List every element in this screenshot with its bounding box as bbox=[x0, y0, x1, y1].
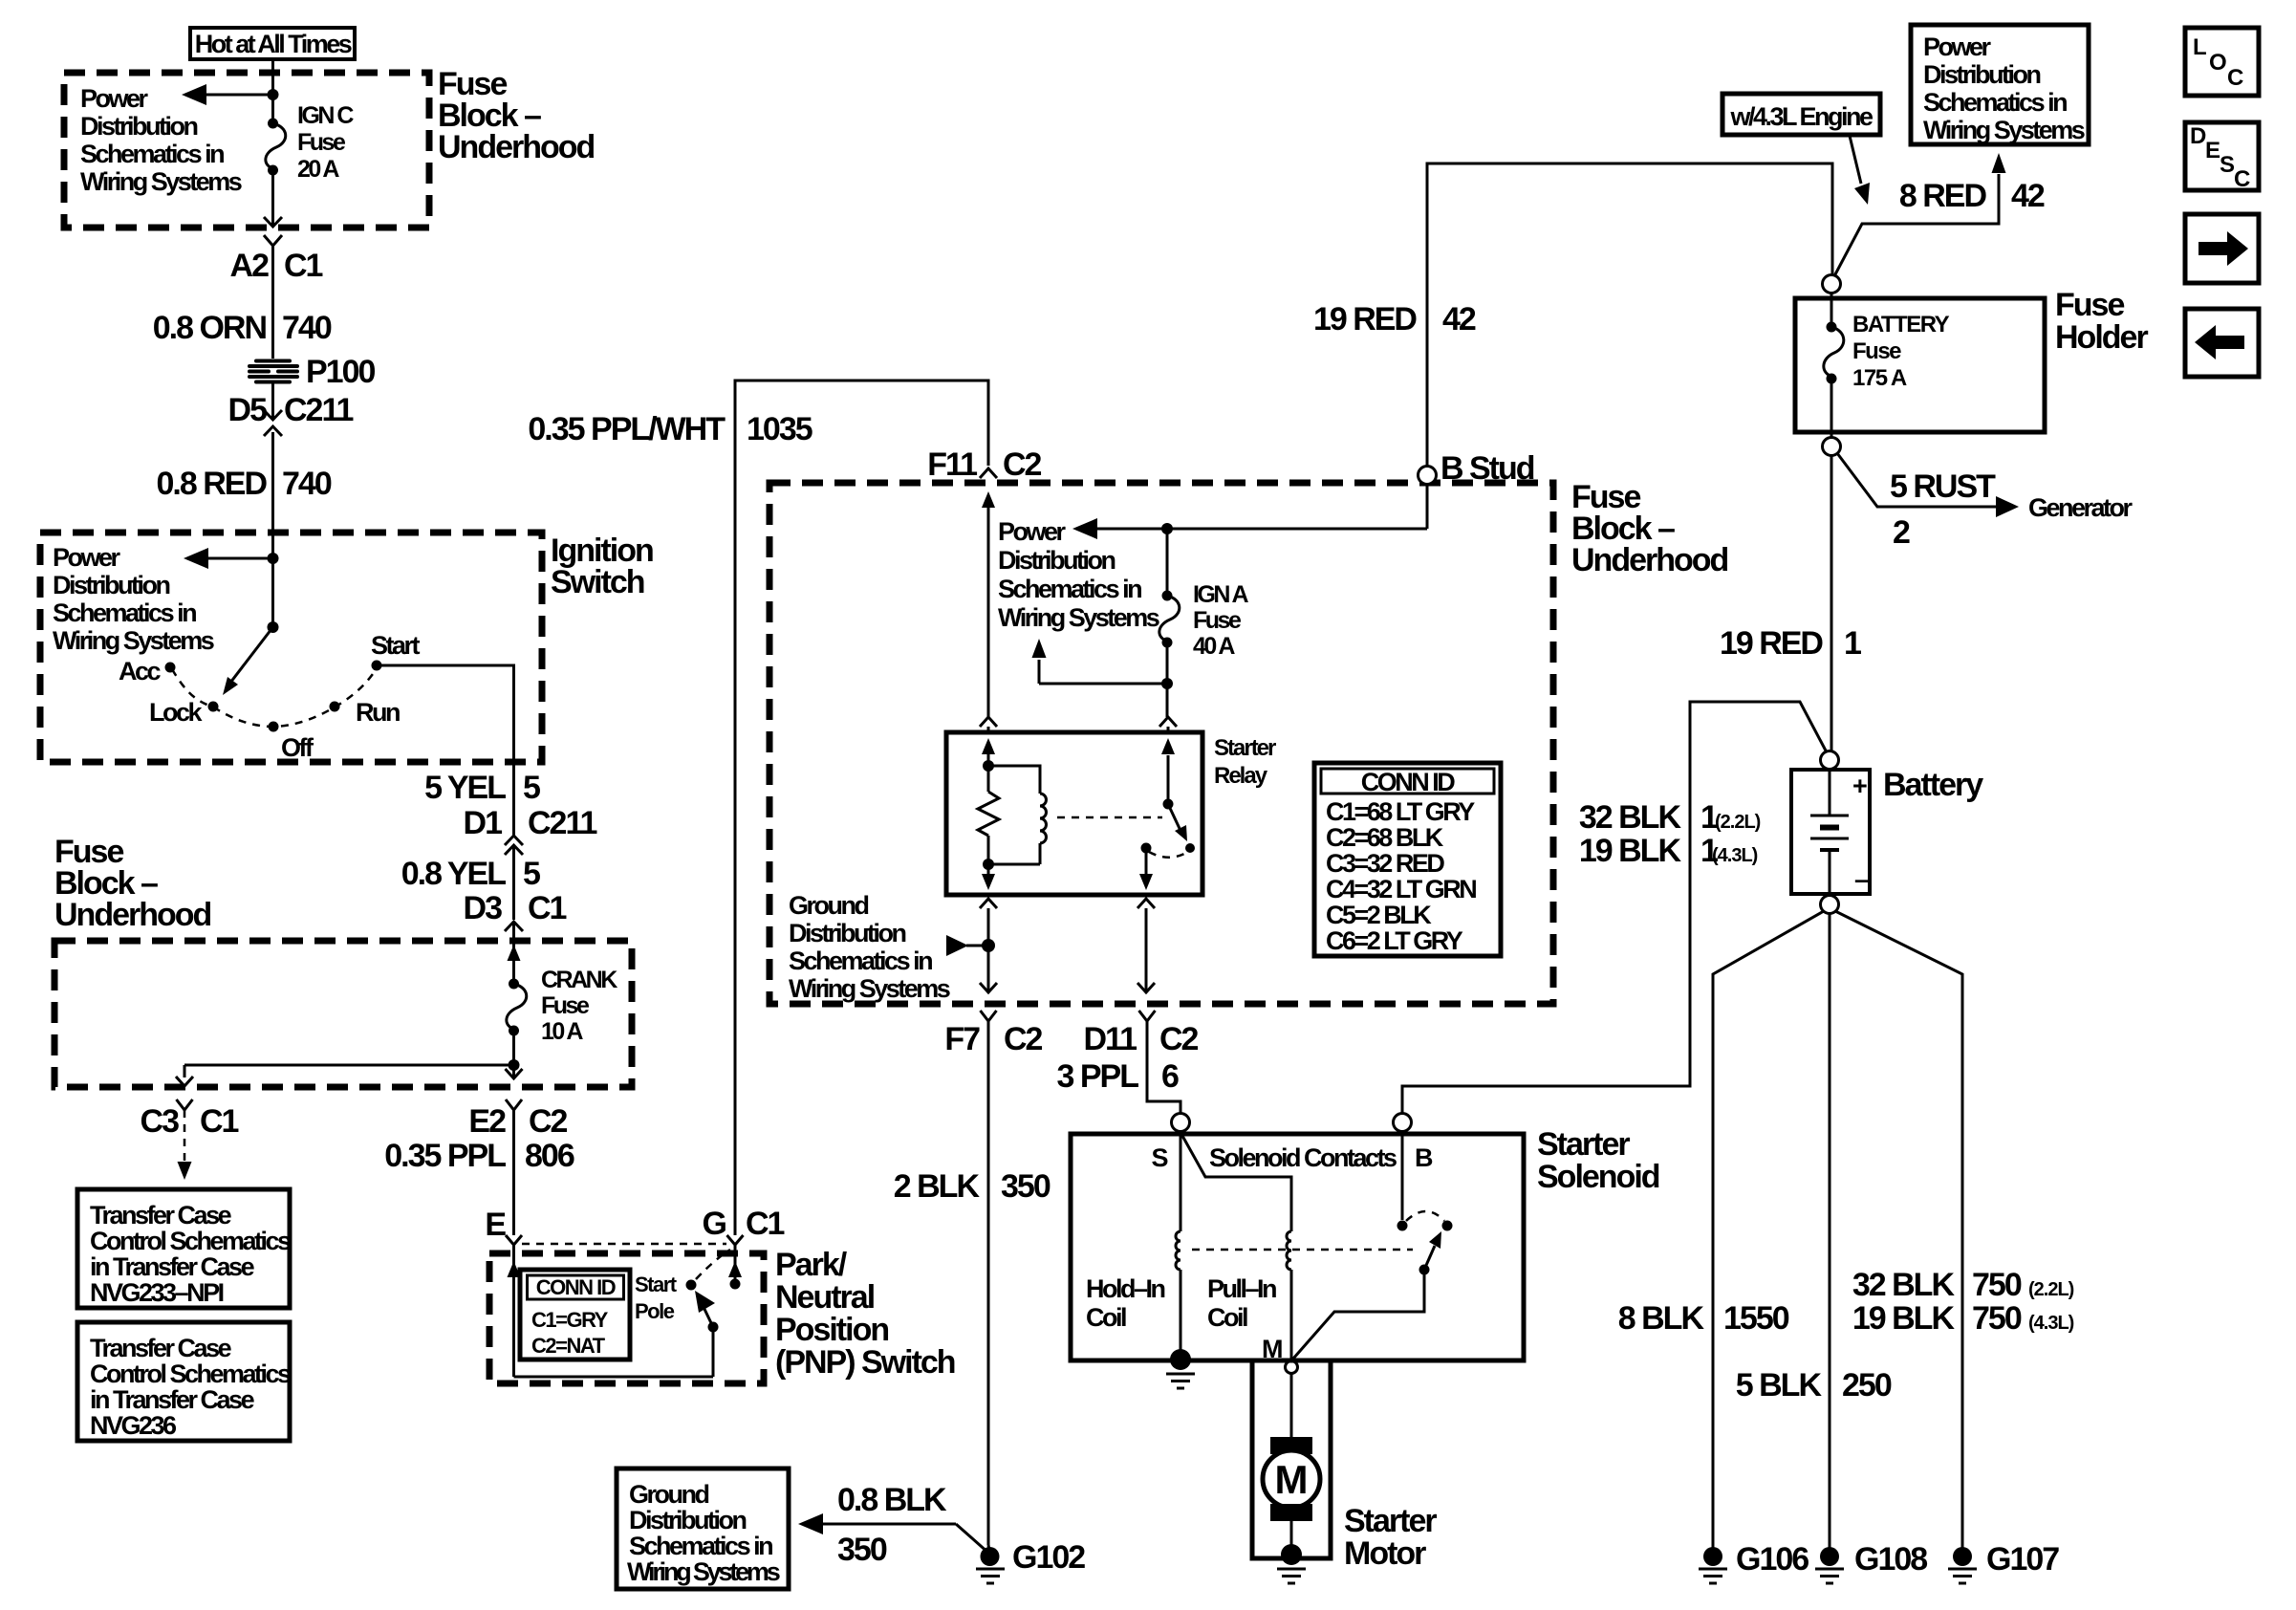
wire: branch with up arrow to power distribution bbox=[1032, 639, 1168, 684]
svg-text:32 BLK: 32 BLK bbox=[1852, 1267, 1956, 1303]
wire: S terminal to hold-in coil bbox=[1180, 1132, 1182, 1231]
svg-text:C1=GRY: C1=GRY bbox=[531, 1308, 609, 1332]
wire 0.35 PPL 806 bbox=[384, 1110, 574, 1235]
arrow to ground distribution tap bbox=[946, 935, 988, 956]
wire 32 BLK / 19 BLK 750 to G107 bbox=[1835, 911, 2074, 1549]
starter motor ground bbox=[1277, 1544, 1306, 1583]
svg-text:C1=68 LT GRY: C1=68 LT GRY bbox=[1326, 797, 1475, 826]
relay moving contact arm bbox=[1168, 804, 1195, 853]
label Starter Solenoid bbox=[1537, 1126, 1659, 1195]
svg-text:+: + bbox=[1852, 772, 1867, 800]
svg-text:350: 350 bbox=[837, 1532, 887, 1568]
connector C2 terminal F11 (chevron) bbox=[927, 446, 1041, 483]
svg-text:5 BLK: 5 BLK bbox=[1736, 1367, 1823, 1403]
svg-text:Relay: Relay bbox=[1214, 763, 1268, 789]
solenoid contact second point bbox=[1442, 1221, 1453, 1231]
svg-text:3 PPL: 3 PPL bbox=[1057, 1058, 1139, 1095]
dashed reference wire to transfer case schematics bbox=[178, 1110, 192, 1180]
svg-text:250: 250 bbox=[1842, 1367, 1892, 1403]
label Start Pole bbox=[635, 1273, 678, 1323]
entry arrow into crank fuse block bbox=[508, 945, 521, 961]
svg-text:B Stud: B Stud bbox=[1440, 450, 1534, 487]
wire 0.8 RED 740 bbox=[157, 432, 332, 558]
wire: P100 to connector C211 bbox=[228, 383, 354, 436]
svg-text:Distribution: Distribution bbox=[998, 546, 1115, 575]
svg-text:2: 2 bbox=[1893, 514, 1910, 551]
svg-text:5: 5 bbox=[523, 856, 540, 892]
connector C1 terminal A2 (fork) bbox=[230, 235, 323, 284]
wire 2 BLK 350 down to G102 bbox=[894, 1021, 1051, 1553]
svg-text:5 RUST: 5 RUST bbox=[1890, 468, 1996, 505]
svg-text:Power: Power bbox=[1923, 33, 1992, 61]
wire 3 PPL 6 to solenoid S terminal bbox=[1057, 1021, 1180, 1113]
battery cell symbol bbox=[1810, 770, 1869, 894]
CONN ID table (fuse block) bbox=[1314, 763, 1501, 956]
wire: M terminal to motor bbox=[1290, 1374, 1293, 1438]
PNP CONN ID table bbox=[520, 1270, 630, 1360]
fuse IGN A 40 A bbox=[1159, 581, 1249, 660]
svg-text:Position: Position bbox=[775, 1312, 888, 1348]
svg-text:Underhood: Underhood bbox=[1571, 542, 1728, 578]
relay fixed contact bbox=[1141, 843, 1152, 854]
svg-text:C6=2 LT GRY: C6=2 LT GRY bbox=[1326, 926, 1463, 955]
junction at IGN A feed bbox=[1161, 523, 1173, 534]
svg-text:0.35 PPL: 0.35 PPL bbox=[384, 1138, 506, 1174]
svg-text:C1: C1 bbox=[746, 1206, 785, 1242]
svg-text:Wiring Systems: Wiring Systems bbox=[53, 626, 214, 655]
svg-text:Power: Power bbox=[80, 84, 149, 113]
wire: S terminal to pull-in coil bbox=[1182, 1136, 1291, 1231]
svg-text:(2.2L): (2.2L) bbox=[2028, 1279, 2074, 1300]
ignition position contact Off bbox=[269, 722, 314, 763]
svg-text:2 BLK: 2 BLK bbox=[894, 1168, 981, 1205]
svg-text:Schematics in: Schematics in bbox=[998, 575, 1141, 603]
svg-text:S: S bbox=[1151, 1143, 1167, 1172]
connector C2 terminal D11 (fork) bbox=[1084, 1011, 1199, 1057]
svg-text:G108: G108 bbox=[1854, 1541, 1927, 1577]
svg-text:Solenoid Contacts: Solenoid Contacts bbox=[1209, 1143, 1397, 1172]
power distribution reference box (top right) bbox=[1911, 25, 2089, 144]
connector C2 terminal F7 (fork) bbox=[944, 1011, 1042, 1057]
ground G107 bbox=[1948, 1541, 2059, 1583]
wire 8 RED 42 with arrow to power distribution bbox=[1835, 153, 2045, 274]
svg-text:in Transfer Case: in Transfer Case bbox=[90, 1385, 255, 1414]
wire: fuse output to connector C1 bbox=[264, 170, 282, 227]
wire: coil bottom branch bbox=[988, 863, 1040, 866]
svg-text:740: 740 bbox=[282, 310, 332, 346]
wire: power distribution tap in ignition switch bbox=[184, 548, 273, 569]
junction at relay coil bottom bbox=[983, 859, 994, 870]
svg-text:Fuse: Fuse bbox=[1193, 607, 1242, 634]
svg-text:C2=68 BLK: C2=68 BLK bbox=[1326, 823, 1444, 852]
svg-text:E: E bbox=[485, 1207, 506, 1243]
svg-text:Distribution: Distribution bbox=[1923, 60, 2040, 89]
wire 5 RUST 2 to generator bbox=[1837, 453, 2019, 551]
svg-text:1035: 1035 bbox=[747, 411, 812, 447]
svg-text:Ground: Ground bbox=[789, 891, 868, 920]
svg-text:C1: C1 bbox=[200, 1103, 239, 1140]
svg-text:19 BLK: 19 BLK bbox=[1852, 1300, 1956, 1337]
relay coil bbox=[1040, 794, 1047, 864]
svg-text:S: S bbox=[2220, 152, 2235, 178]
relay coil feed entry arrow bbox=[982, 738, 995, 767]
label Fuse Block - Underhood (top left) bbox=[438, 66, 595, 165]
svg-text:350: 350 bbox=[1001, 1168, 1051, 1205]
svg-text:IGN C: IGN C bbox=[297, 102, 354, 129]
leader arrow from w/4.3L Engine tag bbox=[1850, 136, 1870, 205]
B Stud terminal bbox=[1419, 450, 1534, 487]
battery box bbox=[1791, 770, 1870, 894]
fuse holder input terminal bbox=[1823, 275, 1841, 294]
svg-text:Control Schematics: Control Schematics bbox=[90, 1360, 291, 1388]
svg-text:Park/: Park/ bbox=[775, 1247, 848, 1283]
svg-text:D: D bbox=[2190, 123, 2206, 149]
svg-text:C1: C1 bbox=[528, 890, 567, 926]
wire: ignition feed to rotor bbox=[271, 558, 274, 627]
svg-text:(2.2L): (2.2L) bbox=[1715, 812, 1761, 833]
dashed travel arc of PNP switch bbox=[696, 1250, 730, 1279]
start pole contact bbox=[686, 1280, 697, 1291]
entry arrow for F11 wire inside fuse block bbox=[982, 491, 995, 717]
svg-text:C: C bbox=[2227, 65, 2243, 91]
wire: Start contact to ignition output bbox=[377, 665, 514, 837]
solenoid S terminal bbox=[1172, 1114, 1190, 1132]
wire: hot feed from tag into fuse block bbox=[271, 57, 274, 120]
chevron above starter relay (left) bbox=[980, 717, 997, 727]
svg-text:IGN A: IGN A bbox=[1193, 581, 1248, 608]
relay output exit arrow bbox=[1139, 848, 1153, 890]
svg-text:L: L bbox=[2193, 34, 2206, 60]
svg-text:Schematics in: Schematics in bbox=[80, 140, 224, 168]
svg-text:6: 6 bbox=[1161, 1058, 1179, 1095]
label Fuse Holder bbox=[2055, 287, 2148, 356]
pull-in coil bbox=[1207, 1231, 1291, 1332]
connector C211 terminal D1 (double chevron) bbox=[464, 805, 597, 855]
svg-text:C2: C2 bbox=[529, 1103, 568, 1140]
svg-text:C2: C2 bbox=[1159, 1021, 1199, 1057]
previous-page arrow box bbox=[2185, 309, 2259, 377]
ignition position contact Lock bbox=[149, 698, 219, 727]
Hot at All Times tag bbox=[190, 28, 355, 59]
wire: pull-in coil to M terminal bbox=[1290, 1270, 1293, 1362]
svg-text:Power: Power bbox=[998, 517, 1067, 546]
svg-text:Pull–In: Pull–In bbox=[1207, 1274, 1276, 1303]
svg-text:750: 750 bbox=[1972, 1267, 2022, 1303]
wire: IGN A fuse output bbox=[1166, 642, 1169, 717]
svg-text:P100: P100 bbox=[306, 354, 375, 390]
svg-text:Ground: Ground bbox=[629, 1480, 708, 1509]
svg-text:Wiring Systems: Wiring Systems bbox=[80, 167, 242, 196]
svg-text:Motor: Motor bbox=[1344, 1535, 1426, 1572]
wire 19 RED 1 to battery bbox=[1720, 456, 1861, 751]
dashed travel arc of ignition switch bbox=[172, 668, 377, 727]
LOC legend box bbox=[2185, 28, 2259, 96]
ground distribution reference note (center) bbox=[789, 891, 950, 1003]
ignition position contact Acc bbox=[119, 657, 176, 685]
starter motor M symbol bbox=[1263, 1437, 1320, 1521]
junction at ignition feed bbox=[268, 553, 279, 564]
svg-text:G: G bbox=[703, 1206, 726, 1242]
wire: B terminal to fixed contact bbox=[1401, 1132, 1404, 1220]
label Battery bbox=[1883, 767, 1983, 803]
fuse holder output terminal bbox=[1823, 438, 1841, 456]
fuse holder box bbox=[1795, 298, 2045, 432]
svg-text:Schematics in: Schematics in bbox=[789, 946, 932, 975]
svg-text:Starter: Starter bbox=[1537, 1126, 1630, 1163]
wire: E terminal into PNP switch bbox=[508, 1245, 714, 1377]
wire 32 BLK / 19 BLK 1 from solenoid B to battery bbox=[1402, 702, 1827, 1114]
svg-text:M: M bbox=[1275, 1457, 1309, 1502]
wire 5 BLK 250 battery negative to G108 bbox=[1736, 913, 1892, 1549]
fuse block underhood dashed box (left middle) bbox=[54, 941, 632, 1087]
fuse BATTERY 175 A bbox=[1824, 293, 1950, 438]
svg-text:C5=2 BLK: C5=2 BLK bbox=[1326, 901, 1432, 929]
svg-text:Wiring Systems: Wiring Systems bbox=[1923, 116, 2085, 144]
power distribution reference note (top left) bbox=[80, 84, 242, 196]
svg-text:C2: C2 bbox=[1004, 1021, 1043, 1057]
fuse block underhood dashed box (center) bbox=[769, 483, 1553, 1004]
svg-text:19 BLK: 19 BLK bbox=[1579, 833, 1682, 869]
ignition rotor arm arrow to Lock bbox=[223, 627, 273, 695]
svg-text:Wiring Systems: Wiring Systems bbox=[627, 1557, 780, 1586]
svg-text:F7: F7 bbox=[944, 1021, 980, 1057]
wire 0.8 ORN 740 bbox=[153, 246, 332, 359]
svg-text:750: 750 bbox=[1972, 1300, 2022, 1337]
wire 0.8 YEL 5 bbox=[401, 845, 540, 920]
wire: branch to transfer case connector bbox=[176, 1065, 514, 1086]
svg-text:Fuse: Fuse bbox=[297, 129, 346, 156]
svg-text:40 A: 40 A bbox=[1193, 633, 1235, 660]
svg-text:NVG236: NVG236 bbox=[90, 1411, 177, 1440]
svg-text:Underhood: Underhood bbox=[438, 129, 595, 165]
wire to IGN A fuse bbox=[1166, 529, 1169, 593]
M terminal bbox=[1262, 1335, 1298, 1374]
wire: relay right output to fuse block edge bbox=[1137, 899, 1155, 992]
dashed contact throw arc in relay bbox=[1149, 852, 1186, 858]
svg-text:1550: 1550 bbox=[1723, 1300, 1789, 1337]
svg-text:740: 740 bbox=[282, 466, 332, 502]
ground G106 bbox=[1699, 1541, 1809, 1583]
svg-text:Distribution: Distribution bbox=[789, 919, 905, 947]
svg-text:Start: Start bbox=[371, 631, 421, 660]
chevron above starter relay (right) bbox=[1159, 717, 1177, 727]
solenoid moving contact arm bbox=[1419, 1231, 1442, 1275]
svg-text:Off: Off bbox=[281, 733, 314, 762]
svg-text:Start: Start bbox=[635, 1273, 678, 1296]
svg-text:Schematics in: Schematics in bbox=[53, 598, 196, 627]
fuse block underhood dashed box (top left) bbox=[64, 73, 429, 228]
svg-text:20 A: 20 A bbox=[297, 156, 339, 183]
svg-text:Starter: Starter bbox=[1344, 1503, 1437, 1539]
wire 0.35 PPL/WHT 1035 from G terminal up to F11 bbox=[528, 381, 988, 1235]
dashed actuation link in solenoid bbox=[1192, 1249, 1413, 1251]
wire: power distribution tap with left arrow bbox=[182, 84, 273, 105]
svg-text:Coil: Coil bbox=[1086, 1303, 1126, 1332]
starter motor case bbox=[1252, 1360, 1331, 1558]
svg-text:Pole: Pole bbox=[635, 1299, 675, 1323]
svg-text:D3: D3 bbox=[464, 890, 503, 926]
junction below IGN A fuse bbox=[1161, 678, 1173, 689]
power distribution reference note (center) bbox=[998, 517, 1159, 632]
starter solenoid box bbox=[1071, 1134, 1524, 1360]
connector C1 terminal D3 (chevron) bbox=[464, 890, 567, 931]
svg-text:w/4.3L Engine: w/4.3L Engine bbox=[1729, 102, 1874, 131]
w/4.3L Engine tag bbox=[1722, 94, 1880, 135]
ground distribution reference box (bottom) bbox=[617, 1469, 789, 1589]
svg-text:A2: A2 bbox=[230, 248, 270, 284]
wire end arrow at fuse block edge bbox=[506, 1069, 523, 1078]
svg-text:C211: C211 bbox=[528, 805, 596, 841]
dashed contact throw arc in solenoid bbox=[1406, 1211, 1444, 1221]
svg-text:CRANK: CRANK bbox=[541, 967, 617, 993]
svg-text:Fuse: Fuse bbox=[1852, 338, 1901, 364]
connector C1 terminal C3 (fork) bbox=[141, 1099, 239, 1140]
connector C1 terminal G (fork) bbox=[703, 1206, 785, 1245]
svg-text:Transfer Case: Transfer Case bbox=[90, 1334, 232, 1362]
label Generator bbox=[2028, 493, 2134, 522]
wire: B stud feed inside fuse block with left arrow bbox=[1072, 484, 1427, 539]
svg-text:CONN ID: CONN ID bbox=[1361, 768, 1456, 796]
solenoid case ground bbox=[1166, 1349, 1195, 1388]
battery positive terminal bbox=[1821, 751, 1839, 770]
svg-text:G107: G107 bbox=[1986, 1541, 2059, 1577]
wire: hold-in coil to case ground bbox=[1180, 1270, 1182, 1354]
wire stubs into relay bbox=[988, 727, 1168, 734]
svg-text:1: 1 bbox=[1844, 625, 1861, 662]
ground G102 bbox=[976, 1539, 1085, 1583]
svg-text:5: 5 bbox=[523, 770, 540, 806]
svg-text:Underhood: Underhood bbox=[54, 897, 211, 933]
transfer case schematics box NVG233-NPI bbox=[77, 1189, 291, 1308]
svg-text:Starter: Starter bbox=[1214, 735, 1276, 761]
svg-text:BATTERY: BATTERY bbox=[1852, 312, 1950, 337]
svg-text:C211: C211 bbox=[284, 392, 353, 428]
svg-text:(4.3L): (4.3L) bbox=[1712, 845, 1758, 866]
hold-in coil bbox=[1086, 1231, 1180, 1332]
wire: moving contact to M terminal bbox=[1293, 1270, 1424, 1359]
label Fuse Block - Underhood (left middle) bbox=[54, 834, 211, 933]
svg-text:Lock: Lock bbox=[149, 698, 204, 727]
junction at relay coil top bbox=[983, 760, 994, 772]
ignition position contact Start bbox=[371, 631, 421, 671]
svg-text:Hot at All Times: Hot at All Times bbox=[195, 30, 352, 58]
svg-text:0.8 BLK: 0.8 BLK bbox=[837, 1482, 947, 1518]
wire: crank fuse output bbox=[512, 1031, 515, 1078]
svg-text:Wiring Systems: Wiring Systems bbox=[998, 603, 1159, 632]
ignition switch dashed box bbox=[40, 533, 542, 762]
svg-text:Switch: Switch bbox=[551, 564, 644, 600]
relay coil ground exit arrow bbox=[982, 864, 995, 890]
svg-text:Distribution: Distribution bbox=[53, 571, 169, 599]
svg-text:Control Schematics: Control Schematics bbox=[90, 1227, 291, 1255]
svg-text:0.8 ORN: 0.8 ORN bbox=[153, 310, 267, 346]
svg-text:F11: F11 bbox=[927, 446, 977, 483]
solenoid B terminal bbox=[1394, 1114, 1412, 1132]
svg-text:Acc: Acc bbox=[119, 657, 162, 685]
solenoid fixed contact bbox=[1397, 1221, 1408, 1231]
label Fuse Block - Underhood (center) bbox=[1571, 479, 1728, 578]
DESC legend box bbox=[2185, 122, 2259, 192]
svg-text:Power: Power bbox=[53, 543, 121, 572]
svg-text:D1: D1 bbox=[464, 805, 503, 841]
rotor pivot junction bbox=[268, 621, 279, 633]
wire: G terminal contact bbox=[728, 1245, 742, 1290]
svg-text:D11: D11 bbox=[1084, 1021, 1137, 1057]
svg-text:C1: C1 bbox=[284, 248, 323, 284]
svg-text:Coil: Coil bbox=[1207, 1303, 1247, 1332]
label Solenoid Contacts bbox=[1209, 1143, 1397, 1172]
wire 0.8 BLK 350 to ground G102 bbox=[798, 1482, 989, 1568]
svg-text:C: C bbox=[2234, 166, 2250, 192]
power distribution reference note (ignition switch) bbox=[53, 543, 214, 655]
svg-text:Transfer Case: Transfer Case bbox=[90, 1201, 232, 1229]
svg-text:32 BLK: 32 BLK bbox=[1579, 799, 1682, 836]
svg-text:8 BLK: 8 BLK bbox=[1618, 1300, 1705, 1337]
svg-text:in Transfer Case: in Transfer Case bbox=[90, 1252, 255, 1281]
svg-text:Fuse: Fuse bbox=[2055, 287, 2124, 323]
svg-text:O: O bbox=[2209, 50, 2226, 76]
starter relay box bbox=[946, 732, 1202, 895]
svg-text:0.8 RED: 0.8 RED bbox=[157, 466, 268, 502]
svg-text:19 RED: 19 RED bbox=[1720, 625, 1823, 662]
svg-text:(4.3L): (4.3L) bbox=[2028, 1313, 2074, 1334]
wire: relay left output to fuse block edge bbox=[980, 899, 997, 992]
svg-text:Holder: Holder bbox=[2055, 319, 2148, 356]
svg-text:8 RED: 8 RED bbox=[1899, 178, 1987, 214]
svg-text:CONN ID: CONN ID bbox=[536, 1275, 616, 1299]
svg-text:C4=32 LT GRN: C4=32 LT GRN bbox=[1326, 875, 1476, 903]
svg-text:Hold–In: Hold–In bbox=[1086, 1274, 1165, 1303]
svg-text:Neutral: Neutral bbox=[775, 1279, 875, 1316]
thin dashed connector C1 boundary line bbox=[522, 1243, 726, 1246]
svg-text:Wiring Systems: Wiring Systems bbox=[789, 974, 950, 1003]
park neutral position switch dashed box bbox=[489, 1253, 764, 1383]
svg-text:NVG233–NPI: NVG233–NPI bbox=[90, 1278, 224, 1307]
wire 19 RED 42 from B stud up and over bbox=[1313, 163, 1832, 467]
dashed actuation link in relay bbox=[1057, 816, 1162, 819]
svg-text:42: 42 bbox=[2011, 178, 2045, 214]
svg-text:42: 42 bbox=[1442, 301, 1476, 337]
svg-text:5 YEL: 5 YEL bbox=[424, 770, 506, 806]
svg-text:Fuse: Fuse bbox=[541, 992, 590, 1019]
resistor in starter relay bbox=[978, 766, 999, 864]
label Starter Motor bbox=[1344, 1503, 1437, 1572]
svg-text:Distribution: Distribution bbox=[629, 1506, 746, 1534]
junction at IGN C feed bbox=[268, 89, 279, 100]
svg-text:Solenoid: Solenoid bbox=[1537, 1159, 1659, 1195]
label Park/Neutral Position (PNP) Switch bbox=[775, 1247, 955, 1381]
label Ignition Switch bbox=[551, 533, 653, 600]
junction on F7 wire at ground tap bbox=[982, 939, 995, 952]
svg-text:Distribution: Distribution bbox=[80, 112, 197, 141]
junction below crank fuse bbox=[509, 1059, 520, 1071]
connector C1 terminal E (fork) bbox=[485, 1207, 522, 1245]
terminal labels S and B bbox=[1151, 1143, 1433, 1172]
svg-text:Schematics in: Schematics in bbox=[1923, 88, 2067, 117]
svg-text:C3=32 RED: C3=32 RED bbox=[1326, 849, 1444, 878]
wire: motor to case ground bbox=[1290, 1521, 1293, 1551]
relay common contact with up arrow bbox=[1161, 738, 1175, 810]
svg-text:E: E bbox=[2205, 138, 2220, 163]
svg-text:G102: G102 bbox=[1012, 1539, 1085, 1576]
svg-text:19 RED: 19 RED bbox=[1313, 301, 1417, 337]
svg-text:C2=NAT: C2=NAT bbox=[531, 1334, 606, 1358]
transfer case schematics box NVG236 bbox=[77, 1322, 291, 1441]
wire label 5 YEL 5 bbox=[424, 770, 540, 806]
svg-text:0.35 PPL/WHT: 0.35 PPL/WHT bbox=[528, 411, 726, 447]
svg-text:G106: G106 bbox=[1736, 1541, 1809, 1577]
wire: coil top branch bbox=[988, 766, 1040, 794]
